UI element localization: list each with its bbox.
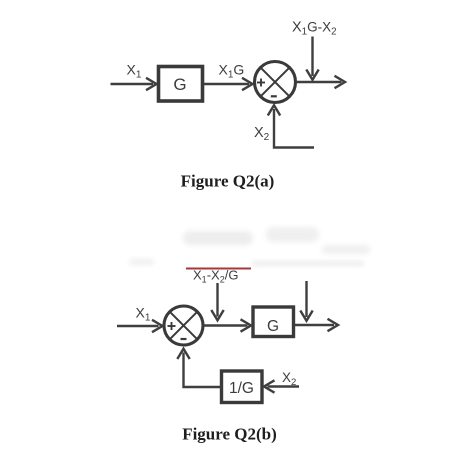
label X1 (input, fig a): [127, 62, 142, 81]
svg-text:1/G: 1/G: [229, 380, 254, 397]
summing junction S1: [255, 62, 296, 103]
wire: X1-X2/G arrow pointing down onto wire: [211, 283, 223, 320]
wire: X1G-X2 arrow pointing down onto output wire: [306, 37, 318, 80]
wire: X2 feed into bottom of S1: [268, 105, 314, 147]
red overline mark: [186, 268, 251, 270]
label X1G-X2: [292, 20, 337, 38]
svg-text:X1G: X1G: [219, 62, 245, 81]
minus sign (S1): [271, 95, 277, 97]
wire: second down arrow onto output wire: [300, 281, 312, 321]
svg-text:X1: X1: [136, 305, 151, 324]
svg-text:X1: X1: [127, 62, 142, 81]
svg-text:Figure Q2(a): Figure Q2(a): [181, 172, 275, 191]
wire: block G to summing junction: [204, 78, 253, 90]
svg-text:X1G-X2: X1G-X2: [292, 20, 337, 38]
summing junction S2: [164, 306, 203, 345]
block 1/G: [222, 371, 263, 403]
plus sign (S2): [168, 322, 176, 330]
wire: input arrow into summing junction S2: [117, 320, 163, 332]
svg-text:Figure Q2(b): Figure Q2(b): [182, 425, 277, 444]
label X1-X2/G: [193, 268, 238, 285]
svg-text:G: G: [267, 318, 279, 335]
label X1 (input, fig b): [136, 305, 151, 324]
caption Figure Q2(b): [182, 425, 277, 444]
minus sign (S2): [181, 338, 187, 340]
wire: S2 to block G: [204, 319, 251, 331]
label X1G: [219, 62, 245, 81]
wire: feedback from 1/G into bottom of S2: [177, 349, 221, 387]
svg-text:X1-X2/G: X1-X2/G: [193, 268, 238, 285]
label X2 (fig b): [282, 370, 296, 388]
label X2 (fig a): [254, 125, 270, 143]
wire: block G output arrow: [295, 319, 338, 331]
wire: input arrow into block G: [111, 78, 157, 90]
plus sign (S1): [257, 79, 265, 87]
svg-text:X2: X2: [254, 125, 270, 143]
wire: X2 arrow into 1/G: [264, 380, 299, 392]
block G (fig b): [253, 307, 294, 337]
wire: summing junction output arrow: [296, 76, 345, 88]
svg-text:G: G: [173, 75, 186, 94]
block G (fig a): [159, 67, 203, 102]
caption Figure Q2(a): [181, 172, 275, 191]
